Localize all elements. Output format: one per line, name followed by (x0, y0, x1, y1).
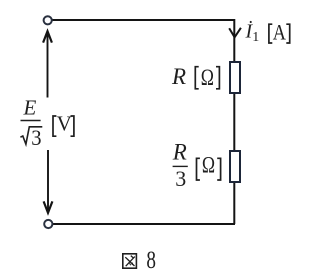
svg-text:R: R (172, 139, 187, 164)
svg-text:3: 3 (31, 125, 41, 150)
svg-text:E: E (23, 96, 37, 120)
svg-text:R: R (171, 64, 186, 89)
svg-text:8: 8 (146, 247, 156, 274)
svg-text:Ω: Ω (202, 152, 215, 178)
svg-text:Ω: Ω (201, 65, 214, 91)
svg-text:A: A (273, 20, 286, 45)
svg-text:3: 3 (175, 166, 186, 191)
svg-text:V: V (57, 112, 72, 136)
svg-text:1: 1 (252, 30, 259, 45)
